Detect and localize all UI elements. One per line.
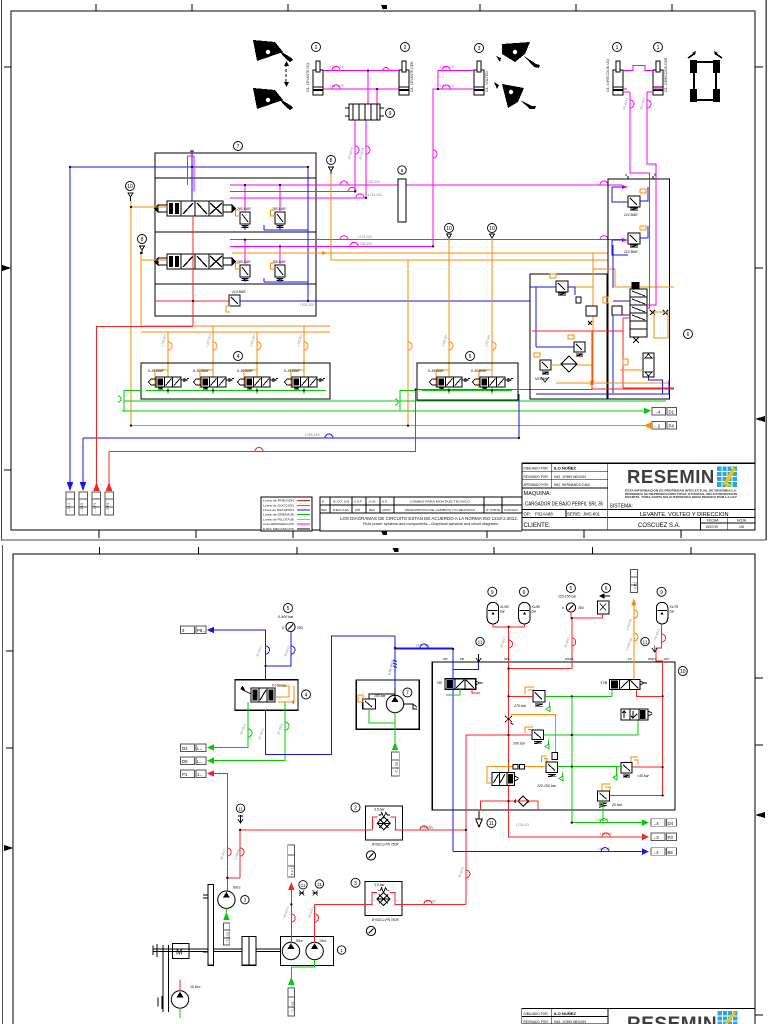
wire orange block6 inputs bbox=[545, 253, 674, 383]
svg-text:10.8cc: 10.8cc bbox=[190, 985, 201, 989]
wire green 200bar out bbox=[544, 720, 638, 735]
wire blue feed top bbox=[70, 166, 308, 168]
wire blue relief lower loop bbox=[612, 226, 648, 255]
wire red main vertical bbox=[508, 648, 510, 811]
svg-text:L←: L← bbox=[197, 759, 204, 764]
balloon 2b bbox=[401, 43, 410, 52]
svg-text:CIL. DIRECCION DER.: CIL. DIRECCION DER. bbox=[664, 57, 668, 92]
motor M bbox=[172, 943, 188, 958]
svg-text:BYN2Cu-PN 75DK: BYN2Cu-PN 75DK bbox=[372, 918, 400, 922]
balloon 6 item bbox=[602, 584, 611, 593]
wire red long bottom bbox=[109, 390, 592, 452]
wire red 45bar right bbox=[632, 766, 663, 768]
pilot valve 10 symbol bbox=[126, 182, 135, 191]
p2 fold arrow left bbox=[4, 845, 13, 851]
svg-text:6: 6 bbox=[401, 168, 404, 173]
relief valve 210 bar lower bbox=[628, 233, 640, 244]
valve block 9 bbox=[349, 104, 380, 120]
wire orange left rect bbox=[551, 346, 669, 385]
balloon 1 dir izq bbox=[613, 43, 622, 52]
svg-text:4: 4 bbox=[305, 693, 308, 699]
svg-text:170 bar: 170 bar bbox=[514, 704, 527, 708]
svg-text:P.4 1←: P.4 1← bbox=[291, 864, 295, 875]
svg-text:L714-12X: L714-12X bbox=[368, 193, 383, 197]
legend line types box bbox=[261, 497, 312, 531]
arrow green D2 bbox=[207, 744, 214, 751]
coupling mid bbox=[242, 937, 256, 966]
accumulator 2 bbox=[519, 587, 528, 596]
drive shaft bbox=[153, 949, 280, 952]
balloon 9 bbox=[386, 109, 395, 118]
svg-text:N° PARTE: N° PARTE bbox=[486, 508, 500, 512]
connector label P4 bbox=[652, 422, 666, 430]
wire green 45bar bbox=[558, 767, 621, 781]
tandem pump box 1 bbox=[280, 937, 333, 966]
svg-text:0-35 BAR: 0-35 BAR bbox=[284, 369, 300, 373]
svg-text:1/8: 1/8 bbox=[739, 525, 744, 529]
wire green long vertical bbox=[571, 696, 573, 822]
svg-text:1: 1 bbox=[657, 45, 660, 51]
svg-text:2: 2 bbox=[404, 45, 407, 51]
svg-text:Linea de PILOTAJE: Linea de PILOTAJE bbox=[263, 517, 294, 521]
svg-text:9: 9 bbox=[660, 590, 663, 596]
balloon 7 bbox=[234, 142, 243, 151]
svg-text:Linea de RETORNO: Linea de RETORNO bbox=[263, 508, 295, 512]
title block outer bbox=[522, 463, 755, 465]
svg-text:REV: REV bbox=[321, 508, 327, 512]
svg-text:WSPY: WSPY bbox=[648, 657, 656, 661]
icon truck chassis top-right bbox=[688, 51, 722, 102]
wire blue YB feed bbox=[395, 649, 479, 669]
wire blue bottom left rect bbox=[536, 380, 669, 394]
wire red stack bbox=[592, 318, 630, 388]
wire blue riser Y1 bbox=[191, 151, 193, 203]
title block page2 bbox=[522, 1008, 755, 1010]
svg-text:6: 6 bbox=[605, 586, 608, 592]
svg-text:P4: P4 bbox=[669, 424, 675, 429]
svg-text:B: B bbox=[322, 499, 324, 503]
svg-text:→3 L5: →3 L5 bbox=[80, 503, 84, 513]
RESEMIN logo mark bbox=[717, 467, 737, 488]
connector label P1 bbox=[181, 770, 195, 778]
wire green 170bar out bbox=[545, 689, 612, 696]
hand pump component bbox=[643, 353, 654, 377]
wire orange right riser to block6 bbox=[331, 174, 608, 260]
svg-text:↑4 P2: ↑4 P2 bbox=[634, 582, 638, 591]
svg-text:P1: P1 bbox=[182, 772, 188, 777]
page 2 border frame bbox=[13, 554, 755, 1024]
balloon 7 bbox=[403, 688, 412, 697]
svg-text:↑T-4 S5: ↑T-4 S5 bbox=[395, 762, 399, 774]
svg-text:D5: D5 bbox=[182, 759, 188, 764]
svg-text:5: 5 bbox=[287, 606, 290, 612]
accumulator 1 bbox=[488, 587, 497, 596]
wire orange pilot col A bbox=[131, 201, 167, 426]
svg-text:APRO: APRO bbox=[382, 508, 391, 512]
reducing valve UP bbox=[552, 753, 558, 760]
frame center anchor bottom bbox=[381, 531, 387, 539]
bulkhead plate bbox=[208, 885, 214, 966]
filter diamond bbox=[561, 356, 577, 372]
wire red Y7B bottom bbox=[637, 690, 663, 697]
svg-text:0-30 BAR: 0-30 BAR bbox=[237, 369, 253, 373]
wire blue relief upper loop bbox=[612, 187, 648, 202]
svg-text:ESCRITA. TODA COPIA NO AUTORIZ: ESCRITA. TODA COPIA NO AUTORIZADA SERA P… bbox=[625, 495, 737, 499]
svg-text:8: 8 bbox=[330, 158, 333, 164]
svg-text:ILO NUÑEZ: ILO NUÑEZ bbox=[554, 1011, 577, 1016]
connector label D1 bbox=[652, 408, 666, 416]
svg-text:FECHA: FECHA bbox=[333, 508, 349, 512]
svg-text:FECHA: FECHA bbox=[707, 519, 719, 523]
cylinder CIL DIRECCION DER bbox=[653, 61, 663, 95]
wire green 20bar drain bbox=[602, 801, 604, 823]
pressure gauge 2 bbox=[566, 603, 575, 612]
icon boom breaker lower-left bbox=[253, 88, 293, 110]
wire red acc3 bbox=[661, 624, 663, 644]
svg-text:LOS DIAGRAMAS DE CIRCUITO ESTA: LOS DIAGRAMAS DE CIRCUITO ESTAN DE ACUER… bbox=[340, 516, 518, 521]
svg-text:0: 0 bbox=[562, 606, 564, 610]
svg-text:15/07/19: 15/07/19 bbox=[706, 525, 719, 529]
svg-text:CIL. VOLTEO: CIL. VOLTEO bbox=[485, 71, 489, 92]
svg-text:REVISADO POR:: REVISADO POR: bbox=[524, 1020, 549, 1024]
page 1 border frame bbox=[11, 11, 755, 530]
wire red to 170bar bbox=[509, 695, 534, 697]
p2 frame anchor top bbox=[393, 548, 399, 556]
restrictor X on red bbox=[505, 716, 514, 725]
wire orange bus lower bbox=[141, 326, 330, 332]
valve mid-right 3pos bbox=[621, 709, 648, 720]
svg-text:3: 3 bbox=[244, 898, 247, 903]
wire blue drop with filter bbox=[394, 636, 396, 688]
svg-text:Linea de DRENAJE: Linea de DRENAJE bbox=[263, 513, 294, 517]
svg-text:D4: D4 bbox=[668, 821, 674, 826]
wire green long A bbox=[124, 391, 666, 411]
svg-text:Linea de SUCCION: Linea de SUCCION bbox=[263, 503, 294, 507]
balloon 1 dir der bbox=[654, 43, 663, 52]
connector 4 P2 vertical bbox=[630, 570, 637, 593]
manifold block 6 left bbox=[530, 274, 607, 399]
svg-text:0: 0 bbox=[282, 626, 284, 630]
svg-text:0-30 BAR: 0-30 BAR bbox=[471, 369, 487, 373]
balloon 5 gauge2 bbox=[566, 584, 575, 593]
wire magenta bus top trio bbox=[245, 185, 280, 212]
wire blue counterbalance loop row2 bbox=[245, 278, 308, 282]
wire green YB stub bbox=[446, 689, 460, 695]
wire magenta direccion risers to block 6 bbox=[623, 92, 656, 179]
lever handle bbox=[241, 687, 251, 695]
wire blue relief out bbox=[240, 300, 530, 302]
svg-text:→4: →4 bbox=[652, 850, 659, 855]
wire green pump1 drain bbox=[291, 960, 314, 978]
cylinder CIL LEVANTE IZQ bbox=[313, 61, 323, 95]
svg-text:←2: ←2 bbox=[654, 424, 661, 429]
wire red HX2 bbox=[315, 903, 466, 905]
wire orange bank4 drops bbox=[168, 326, 304, 377]
valve 3pos inside block4 bbox=[251, 688, 275, 702]
directional valve bank7 section2 bbox=[155, 254, 236, 269]
icon tilt bucket lower bbox=[502, 84, 536, 109]
p2 fold arrow right bbox=[755, 812, 765, 818]
left vertical shaft bbox=[163, 945, 169, 1012]
pilot valve 8 symbol bbox=[138, 235, 147, 244]
svg-text:-: - bbox=[492, 499, 493, 503]
svg-text:N3 BAR: N3 BAR bbox=[535, 377, 548, 381]
svg-text:Linea REFRIGERACION: Linea REFRIGERACION bbox=[263, 522, 294, 526]
svg-text:REVISADO POR:: REVISADO POR: bbox=[524, 475, 549, 479]
bulkhead connector bar bbox=[398, 179, 406, 222]
balloon 3 bbox=[475, 44, 484, 53]
wire red accumulators bbox=[493, 624, 524, 662]
svg-text:CIL. LEVANTE IZQ.: CIL. LEVANTE IZQ. bbox=[306, 62, 310, 92]
svg-text:←1 P1: ←1 P1 bbox=[93, 503, 97, 513]
svg-text:P3: P3 bbox=[668, 835, 674, 840]
svg-text:30cc: 30cc bbox=[296, 939, 304, 943]
svg-text:D2: D2 bbox=[182, 746, 188, 751]
heat exchanger 2 bbox=[351, 878, 360, 887]
wire green exit to D4 bbox=[572, 822, 642, 824]
small valve square left-mid bbox=[586, 306, 597, 316]
svg-text:11: 11 bbox=[489, 821, 494, 827]
pilot pump circle bbox=[386, 695, 403, 712]
wire green valve out right bbox=[214, 702, 285, 761]
svg-text:SPB: SPB bbox=[504, 657, 510, 661]
balloon 8 right bbox=[327, 156, 336, 165]
balloon 6 bar bbox=[398, 166, 406, 174]
directional valve bank7 section1 bbox=[155, 201, 236, 216]
wire label L417-12L bbox=[395, 647, 453, 649]
svg-text:19cc: 19cc bbox=[319, 939, 327, 943]
svg-text:↑T-4 S1: ↑T-4 S1 bbox=[226, 931, 230, 943]
svg-text:1←: 1← bbox=[197, 772, 204, 777]
connector label D5 bbox=[181, 757, 195, 765]
frame center anchor top bbox=[381, 5, 387, 14]
hose coupling arcs p2 bbox=[266, 646, 296, 654]
svg-text:RESEMIN: RESEMIN bbox=[627, 1014, 717, 1024]
wire blue YB to valve bbox=[460, 689, 470, 693]
svg-text:LEVANTE, VOLTEO Y DIRECCION: LEVANTE, VOLTEO Y DIRECCION bbox=[640, 512, 729, 518]
wire red block7 bbox=[155, 216, 229, 327]
revision table bbox=[320, 497, 522, 531]
icon tilt bucket upper bbox=[502, 42, 540, 68]
svg-text:←2 P2: ←2 P2 bbox=[106, 503, 110, 513]
orifice valve mid bbox=[612, 306, 622, 315]
svg-text:ILO NUÑEZ: ILO NUÑEZ bbox=[554, 466, 577, 471]
heat exchanger 1 bbox=[351, 803, 360, 812]
arrow red P1 bbox=[207, 770, 214, 777]
svg-text:J.N.B: J.N.B bbox=[368, 499, 375, 503]
svg-text:1: 1 bbox=[616, 45, 619, 51]
wire blue through block4 down bbox=[266, 636, 396, 755]
svg-text:HOJA: HOJA bbox=[737, 519, 747, 523]
balloon 11 strainer bbox=[641, 637, 649, 645]
valve bank 5 outline bbox=[417, 363, 518, 400]
wire red 20bar bbox=[610, 794, 663, 796]
svg-text:WP: WP bbox=[443, 657, 448, 661]
wire magenta bus row2 bbox=[245, 240, 280, 265]
svg-text:CIL. LEVANTE DER.: CIL. LEVANTE DER. bbox=[410, 61, 414, 92]
wire blue inner riser bbox=[307, 167, 309, 301]
wire orange pilot cross bbox=[511, 715, 556, 753]
balloon 4 bbox=[302, 690, 311, 699]
wire name labels magenta bus bbox=[160, 97, 646, 348]
wire green bank4 internal bbox=[146, 387, 326, 394]
svg-text:H.D.: H.D. bbox=[382, 499, 388, 503]
wire red pump3 bbox=[226, 878, 228, 892]
svg-text:ING. JOHN NEGON: ING. JOHN NEGON bbox=[554, 475, 586, 479]
balloon 2 cyl levante izq bbox=[312, 43, 321, 52]
wire green UP out bbox=[558, 766, 621, 768]
svg-text:COSCUEZ S.A.: COSCUEZ S.A. bbox=[638, 523, 681, 529]
svg-text:CLIENTE:: CLIENTE: bbox=[524, 523, 551, 529]
svg-text:→4: →4 bbox=[654, 410, 661, 415]
svg-text:→3: →3 bbox=[652, 835, 659, 840]
svg-text:0-35 BAR: 0-35 BAR bbox=[428, 369, 444, 373]
pressure gauge 0-400 bbox=[286, 622, 295, 631]
svg-text:L724-12L: L724-12L bbox=[516, 823, 530, 827]
svg-text:CIL. DIRECCION IZQ.: CIL. DIRECCION IZQ. bbox=[606, 58, 610, 92]
wire red left drop bbox=[97, 327, 194, 487]
dashed arrow between icons bbox=[285, 64, 287, 84]
svg-text:BYN2Cu-PN 75DK: BYN2Cu-PN 75DK bbox=[372, 843, 400, 847]
wire red pump1 B bbox=[314, 904, 316, 942]
wire magenta levante pair upper bbox=[323, 70, 399, 72]
svg-text:5.07.19: 5.07.19 bbox=[333, 499, 350, 503]
svg-text:10: 10 bbox=[489, 226, 495, 232]
connector box T1 bbox=[66, 492, 114, 515]
svg-text:3: 3 bbox=[478, 46, 481, 52]
green arrow down to tank label bbox=[392, 742, 398, 750]
svg-text:C.N.P: C.N.P bbox=[354, 499, 362, 503]
accumulator 3 bbox=[657, 587, 666, 596]
wire magenta levante drops to valve 9 bbox=[355, 71, 377, 198]
frame tick left bbox=[4, 67, 11, 470]
wire red drop2 bbox=[108, 452, 110, 487]
relief 45 bar bbox=[631, 757, 638, 764]
svg-text:MAQUINA:: MAQUINA: bbox=[524, 491, 552, 497]
svg-text:DIBUJADO POR:: DIBUJADO POR: bbox=[524, 467, 549, 471]
red stub right of YB bbox=[472, 689, 480, 693]
wire red to 200bar bbox=[466, 734, 532, 736]
svg-text:SPY: SPY bbox=[664, 657, 670, 661]
svg-text:250: 250 bbox=[297, 626, 303, 630]
wire blue left drop1 bbox=[69, 167, 71, 489]
wire red left rect bbox=[532, 331, 674, 389]
balloon 10 bank5b bbox=[488, 224, 497, 233]
svg-text:0-400 bar: 0-400 bar bbox=[278, 615, 294, 619]
svg-text:7: 7 bbox=[237, 144, 240, 150]
relief left-upper blue bbox=[556, 281, 568, 292]
connector label B5 bbox=[651, 848, 665, 856]
svg-text:10: 10 bbox=[446, 226, 452, 232]
wire green pump drain bbox=[369, 709, 395, 745]
frame tick marks bottom bbox=[99, 530, 681, 538]
relief valve 210 bar upper bbox=[628, 196, 640, 207]
svg-text:→4: →4 bbox=[652, 821, 659, 826]
svg-text:Fluid power systems and compon: Fluid power systems and components—Graph… bbox=[363, 522, 498, 526]
relief N3 bar bbox=[540, 360, 551, 370]
svg-text:210 BAR: 210 BAR bbox=[231, 290, 246, 294]
svg-text:-: - bbox=[510, 499, 511, 503]
svg-text:B5: B5 bbox=[668, 850, 674, 855]
relief mid valve bbox=[574, 342, 585, 352]
cylinder CIL DIRECCION IZQ bbox=[613, 61, 623, 95]
wire green bank5 exit bbox=[400, 391, 422, 412]
icon boom breaker upper-left bbox=[253, 40, 293, 62]
wire green long B with arrow bbox=[122, 410, 644, 412]
svg-text:B: B bbox=[654, 173, 656, 177]
frame fold arrow right bbox=[755, 416, 765, 422]
svg-text:PV: PV bbox=[628, 657, 632, 661]
svg-text:3.5 bar: 3.5 bar bbox=[374, 883, 385, 887]
svg-text:6: 6 bbox=[687, 332, 690, 338]
svg-text:→1 L1: →1 L1 bbox=[67, 503, 71, 513]
svg-text:XL/76: XL/76 bbox=[669, 605, 679, 609]
svg-text:L765-15X: L765-15X bbox=[305, 433, 320, 437]
p2 frame side ticks bbox=[6, 651, 763, 1015]
relief 20 bar bbox=[602, 784, 610, 791]
frame tick right bbox=[755, 67, 763, 268]
wire orange to UP bbox=[491, 766, 546, 768]
strainer symbols pair bbox=[299, 890, 304, 895]
title left column grid bbox=[522, 464, 755, 531]
wire red P1 line bbox=[214, 774, 227, 848]
shaft couplings left bbox=[153, 944, 157, 957]
wire blue long vertical bbox=[452, 649, 454, 852]
svg-text:150 bar: 150 bar bbox=[374, 694, 386, 698]
relief 200 bar bbox=[525, 727, 533, 733]
wire orange bank5 drops bbox=[408, 238, 492, 426]
arrow orange up bbox=[631, 598, 636, 605]
wire magenta direccion pair bbox=[623, 66, 663, 90]
frame fold arrow left bbox=[2, 265, 11, 271]
svg-text:ING. JOHN NEGON: ING. JOHN NEGON bbox=[554, 1020, 586, 1024]
svg-text:JMC-801: JMC-801 bbox=[583, 512, 601, 517]
wire blue left rect bbox=[530, 287, 575, 347]
svg-text:PB: PB bbox=[460, 657, 464, 661]
wire red pump1 A bbox=[290, 890, 292, 943]
relief 170 bar bbox=[525, 687, 534, 694]
svg-text:120-150 bar: 120-150 bar bbox=[537, 784, 557, 788]
svg-text:WSAB: WSAB bbox=[565, 657, 573, 661]
wire blue counterbalance loop row1 bbox=[245, 225, 308, 230]
svg-text:9: 9 bbox=[491, 590, 494, 596]
wire red right branch bbox=[656, 644, 663, 795]
svg-text:9: 9 bbox=[389, 111, 392, 117]
wire red main drop right bbox=[465, 735, 467, 904]
valve block 7 outline bbox=[155, 153, 316, 316]
wire green valve out left bbox=[214, 702, 248, 748]
balloon 10 bbox=[678, 667, 687, 676]
shuttle valve bottom bbox=[518, 796, 528, 806]
wire red P1 riser bbox=[227, 830, 240, 878]
svg-text:L705-15X: L705-15X bbox=[300, 303, 315, 307]
svg-text:CODIGO: CODIGO bbox=[504, 508, 519, 512]
svg-text:3.5 bar: 3.5 bar bbox=[374, 808, 385, 812]
svg-text:OP:: OP: bbox=[524, 512, 532, 517]
wire blue left drop2 bbox=[82, 438, 84, 489]
wire blue stack left bbox=[613, 245, 630, 393]
wire orange P2 drop bbox=[633, 605, 635, 679]
arrow red up 2 bbox=[106, 482, 113, 491]
valve bank 4 outline bbox=[141, 363, 330, 399]
svg-text:Linea de PRESION: Linea de PRESION bbox=[263, 499, 294, 503]
wire blue main drop bbox=[214, 630, 266, 680]
wire magenta levante pair lower bbox=[323, 88, 399, 90]
svg-text:11: 11 bbox=[238, 806, 243, 811]
svg-text:11: 11 bbox=[317, 882, 322, 887]
svg-text:200 bar: 200 bar bbox=[512, 742, 526, 746]
directional valve lower-left bbox=[492, 772, 514, 785]
